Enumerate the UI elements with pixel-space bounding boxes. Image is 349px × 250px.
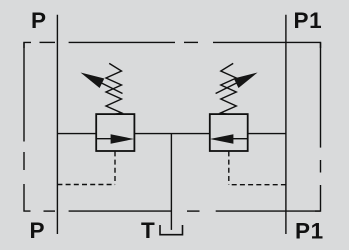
- wire valve V1 outlet to valve V2 outlet: [134, 133, 209, 135]
- relief valve V2 internal arrow (points left): [210, 134, 234, 143]
- relief valve V1 internal flow line: [96, 138, 113, 140]
- enclosure top edge dashes: [24, 42, 31, 48]
- pilot line of valve V2 (dashed) vertical: [228, 151, 230, 184]
- svg-text:P1: P1: [295, 219, 324, 244]
- svg-text:T: T: [141, 218, 155, 243]
- relief valve V2 body: [210, 114, 248, 151]
- relief valve V1 body: [96, 114, 134, 151]
- wire valve V2 inlet to P1: [248, 133, 286, 135]
- enclosure bottom edge dashes: [44, 210, 56, 212]
- pilot line of valve V1 (dashed) horizontal: [57, 184, 115, 186]
- spring of valve V2: [221, 63, 237, 114]
- enclosure right edge: [320, 42, 322, 147]
- tank symbol at T: [160, 225, 183, 235]
- adjustment arrow of valve V2: [216, 76, 250, 93]
- enclosure left edge: [23, 42, 25, 141]
- wire P1 vertical line: [285, 15, 287, 234]
- svg-text:P1: P1: [294, 8, 323, 33]
- relief valve V1 internal arrow (points right): [111, 134, 135, 143]
- pilot line of valve V2 (dashed) horizontal: [229, 184, 286, 186]
- svg-text:P: P: [31, 8, 46, 33]
- wire P vertical line: [56, 15, 58, 234]
- spring of valve V1: [106, 63, 122, 114]
- relief valve V2 internal flow line: [233, 138, 248, 140]
- pilot line of valve V1 (dashed) vertical: [114, 151, 116, 184]
- svg-text:P: P: [30, 218, 45, 243]
- wire P to valve V1 inlet: [57, 133, 96, 135]
- wire T drain vertical: [170, 134, 172, 230]
- adjustment arrow of valve V1: [88, 76, 123, 93]
